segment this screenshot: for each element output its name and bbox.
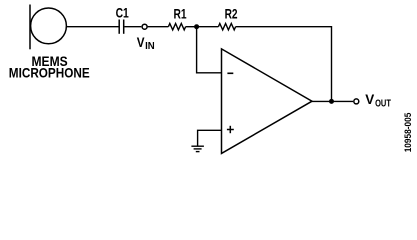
svg-text:V: V (137, 34, 145, 50)
svg-text:MICROPHONE: MICROPHONE (9, 65, 90, 81)
svg-text:V: V (365, 91, 375, 107)
ground (191, 146, 204, 151)
wire op-amp output to VOUT (312, 100, 353, 102)
label MEMS MICROPHONE (9, 53, 90, 80)
wire C1 to VIN node (124, 26, 141, 28)
resistor R1 (168, 24, 185, 30)
svg-text:C1: C1 (116, 5, 129, 21)
wire R1 to node A (186, 26, 197, 28)
wire node A to R2 (197, 26, 219, 28)
svg-text:R2: R2 (225, 5, 238, 21)
op-amp plus sign (227, 126, 234, 133)
wire VIN to R1 (148, 26, 169, 28)
node VOUT (open terminal) (354, 99, 359, 104)
label VIN (137, 34, 155, 52)
capacitor C1 (119, 20, 124, 34)
svg-text:10958-005: 10958-005 (403, 113, 413, 153)
svg-text:IN: IN (145, 41, 155, 52)
svg-text:R1: R1 (174, 5, 187, 21)
node VIN (open terminal) (142, 24, 147, 29)
node B junction dot (feedback/output) (329, 99, 334, 104)
microphone MIC body (31, 8, 67, 44)
wire mic to C1 (66, 26, 118, 28)
resistor R2 (218, 24, 235, 30)
wire non-inverting input to ground (198, 130, 222, 146)
microphone diaphragm line (29, 5, 31, 50)
op-amp minus sign (227, 72, 233, 74)
op-amp U1 (222, 49, 313, 153)
label VOUT (365, 91, 391, 109)
node A junction dot (194, 24, 199, 29)
wire R2 feedback top (236, 27, 332, 102)
svg-text:OUT: OUT (375, 98, 391, 109)
wire node A to inverting input (197, 27, 222, 73)
